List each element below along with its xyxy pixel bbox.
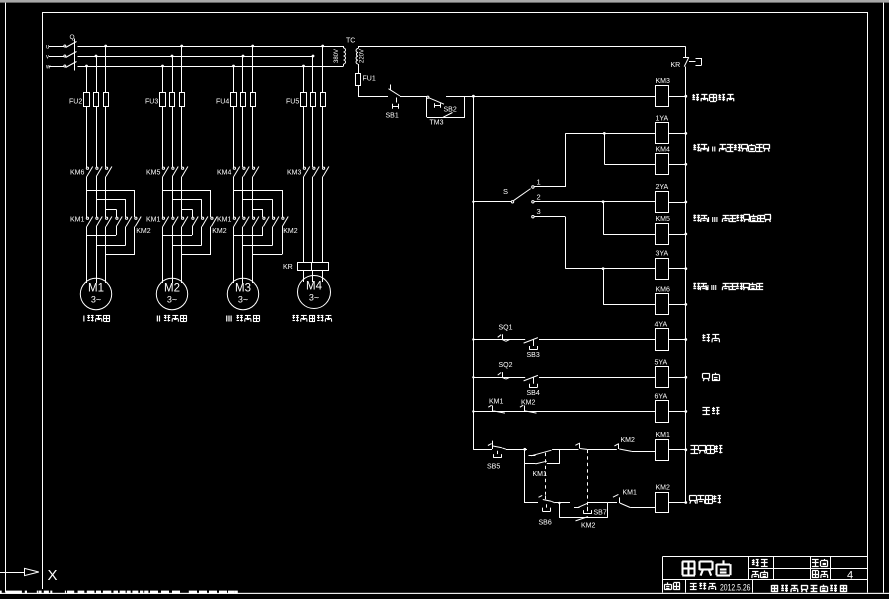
svg-text:3~: 3~ xyxy=(91,295,101,305)
svg-text:S: S xyxy=(503,187,508,196)
svg-text:v: v xyxy=(46,54,49,60)
svg-text:SB6: SB6 xyxy=(539,520,552,527)
svg-text:3~: 3~ xyxy=(167,295,177,305)
svg-text:SB7: SB7 xyxy=(594,510,607,517)
svg-text:KM4: KM4 xyxy=(217,170,232,177)
svg-text:KM1: KM1 xyxy=(489,399,504,406)
svg-text:3YA: 3YA xyxy=(656,251,669,258)
svg-text:3: 3 xyxy=(537,207,541,216)
svg-text:M1: M1 xyxy=(88,283,104,295)
svg-text:II: II xyxy=(156,315,160,324)
svg-text:2: 2 xyxy=(537,192,541,201)
svg-text:KM1: KM1 xyxy=(217,217,232,224)
svg-text:X: X xyxy=(48,567,58,584)
svg-text:380V: 380V xyxy=(334,49,340,63)
svg-text:SB5: SB5 xyxy=(487,464,500,471)
svg-text:6YA: 6YA xyxy=(655,394,668,401)
svg-text:5YA: 5YA xyxy=(655,359,668,366)
svg-text:KM2: KM2 xyxy=(521,400,536,407)
svg-text:KM3: KM3 xyxy=(656,78,671,85)
svg-text:KM1: KM1 xyxy=(533,471,548,478)
svg-text:M3: M3 xyxy=(235,283,251,295)
svg-text:KM1: KM1 xyxy=(146,217,161,224)
svg-text:3~: 3~ xyxy=(238,295,248,305)
svg-text:SB2: SB2 xyxy=(444,107,457,114)
svg-text:II III: II III xyxy=(705,285,717,292)
svg-text:KM2: KM2 xyxy=(621,437,636,444)
svg-text:1YA: 1YA xyxy=(656,115,669,122)
svg-text:KR: KR xyxy=(283,264,293,271)
svg-text:KM6: KM6 xyxy=(656,286,671,293)
svg-text:KM4: KM4 xyxy=(656,146,671,153)
svg-text:I: I xyxy=(83,315,85,324)
svg-text:KM2: KM2 xyxy=(136,228,151,235)
svg-text:2YA: 2YA xyxy=(656,184,669,191)
svg-text:SB3: SB3 xyxy=(527,352,540,359)
svg-text:FU2: FU2 xyxy=(69,99,82,106)
svg-text:KM2: KM2 xyxy=(283,228,298,235)
svg-text:u: u xyxy=(46,44,49,50)
svg-text:KM5: KM5 xyxy=(656,216,671,223)
svg-text:TC: TC xyxy=(346,38,355,45)
svg-text:FU1: FU1 xyxy=(363,76,376,83)
svg-text:FU5: FU5 xyxy=(286,99,299,106)
svg-text:SQ1: SQ1 xyxy=(499,325,513,332)
svg-text:TM3: TM3 xyxy=(430,120,444,127)
svg-text:w: w xyxy=(45,64,51,70)
svg-text:KM5: KM5 xyxy=(146,170,161,177)
svg-text:3~: 3~ xyxy=(309,293,319,303)
svg-text:KR: KR xyxy=(671,62,681,69)
svg-text:FU3: FU3 xyxy=(145,99,158,106)
svg-text:SB4: SB4 xyxy=(527,390,540,397)
svg-text:FU4: FU4 xyxy=(216,99,229,106)
svg-text:4YA: 4YA xyxy=(655,322,668,329)
svg-text:KM1: KM1 xyxy=(623,490,638,497)
svg-text:III: III xyxy=(226,315,233,324)
svg-text:I III: I III xyxy=(708,215,718,224)
svg-text:M4: M4 xyxy=(306,281,323,293)
svg-text:M2: M2 xyxy=(164,283,180,295)
svg-text:1: 1 xyxy=(537,178,541,187)
svg-text:KM1: KM1 xyxy=(656,432,671,439)
svg-text:2012.5.26: 2012.5.26 xyxy=(720,583,751,593)
svg-text:KM1: KM1 xyxy=(70,217,85,224)
svg-text:KM2: KM2 xyxy=(212,228,227,235)
svg-text:SQ2: SQ2 xyxy=(499,362,513,369)
svg-text:I II: I II xyxy=(708,145,716,154)
svg-text:Q: Q xyxy=(70,34,75,41)
svg-text:4: 4 xyxy=(847,570,853,582)
svg-text:KM6: KM6 xyxy=(70,170,85,177)
svg-text:SB1: SB1 xyxy=(386,113,399,120)
svg-text:KM2: KM2 xyxy=(656,485,671,492)
svg-text:220V: 220V xyxy=(360,49,366,63)
svg-text:KM3: KM3 xyxy=(287,170,302,177)
svg-text:KM2: KM2 xyxy=(581,523,596,530)
